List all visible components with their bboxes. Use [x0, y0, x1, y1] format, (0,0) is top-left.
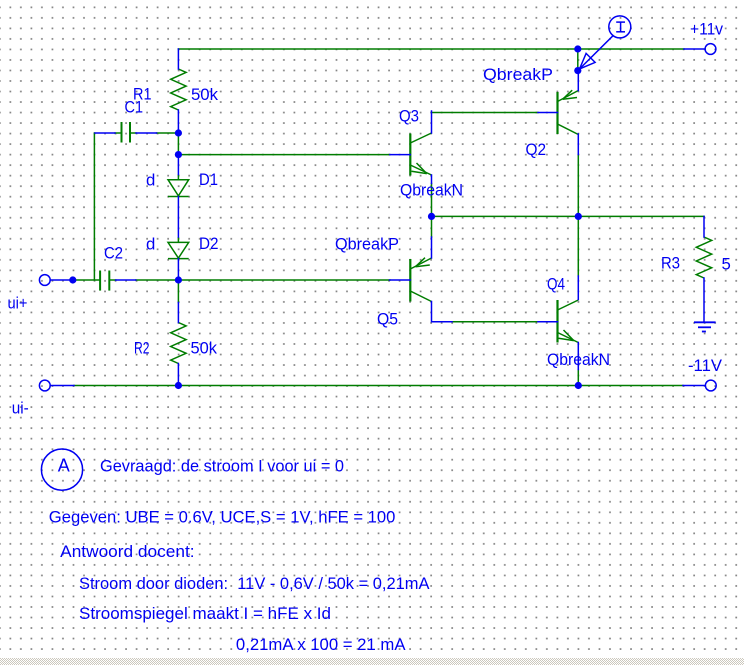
svg-text:Stroom door dioden: 11V - 0,6: Stroom door dioden: 11V - 0,6V / 50k = 0…: [79, 574, 430, 593]
svg-text:Q5: Q5: [377, 309, 398, 328]
svg-text:Q4: Q4: [547, 275, 565, 294]
svg-text:R2: R2: [134, 339, 150, 358]
svg-text:Antwoord docent:: Antwoord docent:: [60, 542, 194, 561]
svg-text:0,21mA x 100 = 21 mA: 0,21mA x 100 = 21 mA: [236, 635, 406, 654]
svg-text:Q2: Q2: [526, 140, 547, 159]
svg-text:C1: C1: [125, 98, 144, 117]
svg-text:Gevraagd: de stroom I voor ui: Gevraagd: de stroom I voor ui = 0: [100, 456, 344, 475]
svg-text:d: d: [146, 170, 155, 189]
svg-text:ui-: ui-: [12, 398, 29, 417]
svg-text:5: 5: [722, 254, 731, 273]
svg-text:50k: 50k: [191, 339, 218, 358]
svg-text:QbreakP: QbreakP: [335, 235, 399, 254]
svg-text:Q3: Q3: [399, 107, 419, 126]
svg-text:ui+: ui+: [8, 293, 28, 312]
svg-text:QbreakP: QbreakP: [483, 65, 553, 84]
svg-text:Gegeven: UBE = 0.6V, UCE,S = 1: Gegeven: UBE = 0.6V, UCE,S = 1V, hFE = 1…: [49, 507, 396, 526]
svg-text:Stroomspiegel maakt I = hFE x: Stroomspiegel maakt I = hFE x Id: [79, 604, 331, 623]
svg-text:+11v: +11v: [690, 20, 724, 39]
svg-text:A: A: [58, 456, 70, 476]
svg-text:R3: R3: [661, 254, 680, 273]
svg-text:D1: D1: [199, 170, 218, 189]
svg-text:-11V: -11V: [688, 356, 723, 375]
svg-text:C2: C2: [104, 244, 123, 263]
svg-text:QbreakN: QbreakN: [400, 181, 463, 200]
svg-text:QbreakN: QbreakN: [547, 350, 610, 369]
svg-text:D2: D2: [199, 234, 219, 253]
svg-text:50k: 50k: [191, 85, 219, 104]
svg-text:d: d: [146, 234, 155, 253]
